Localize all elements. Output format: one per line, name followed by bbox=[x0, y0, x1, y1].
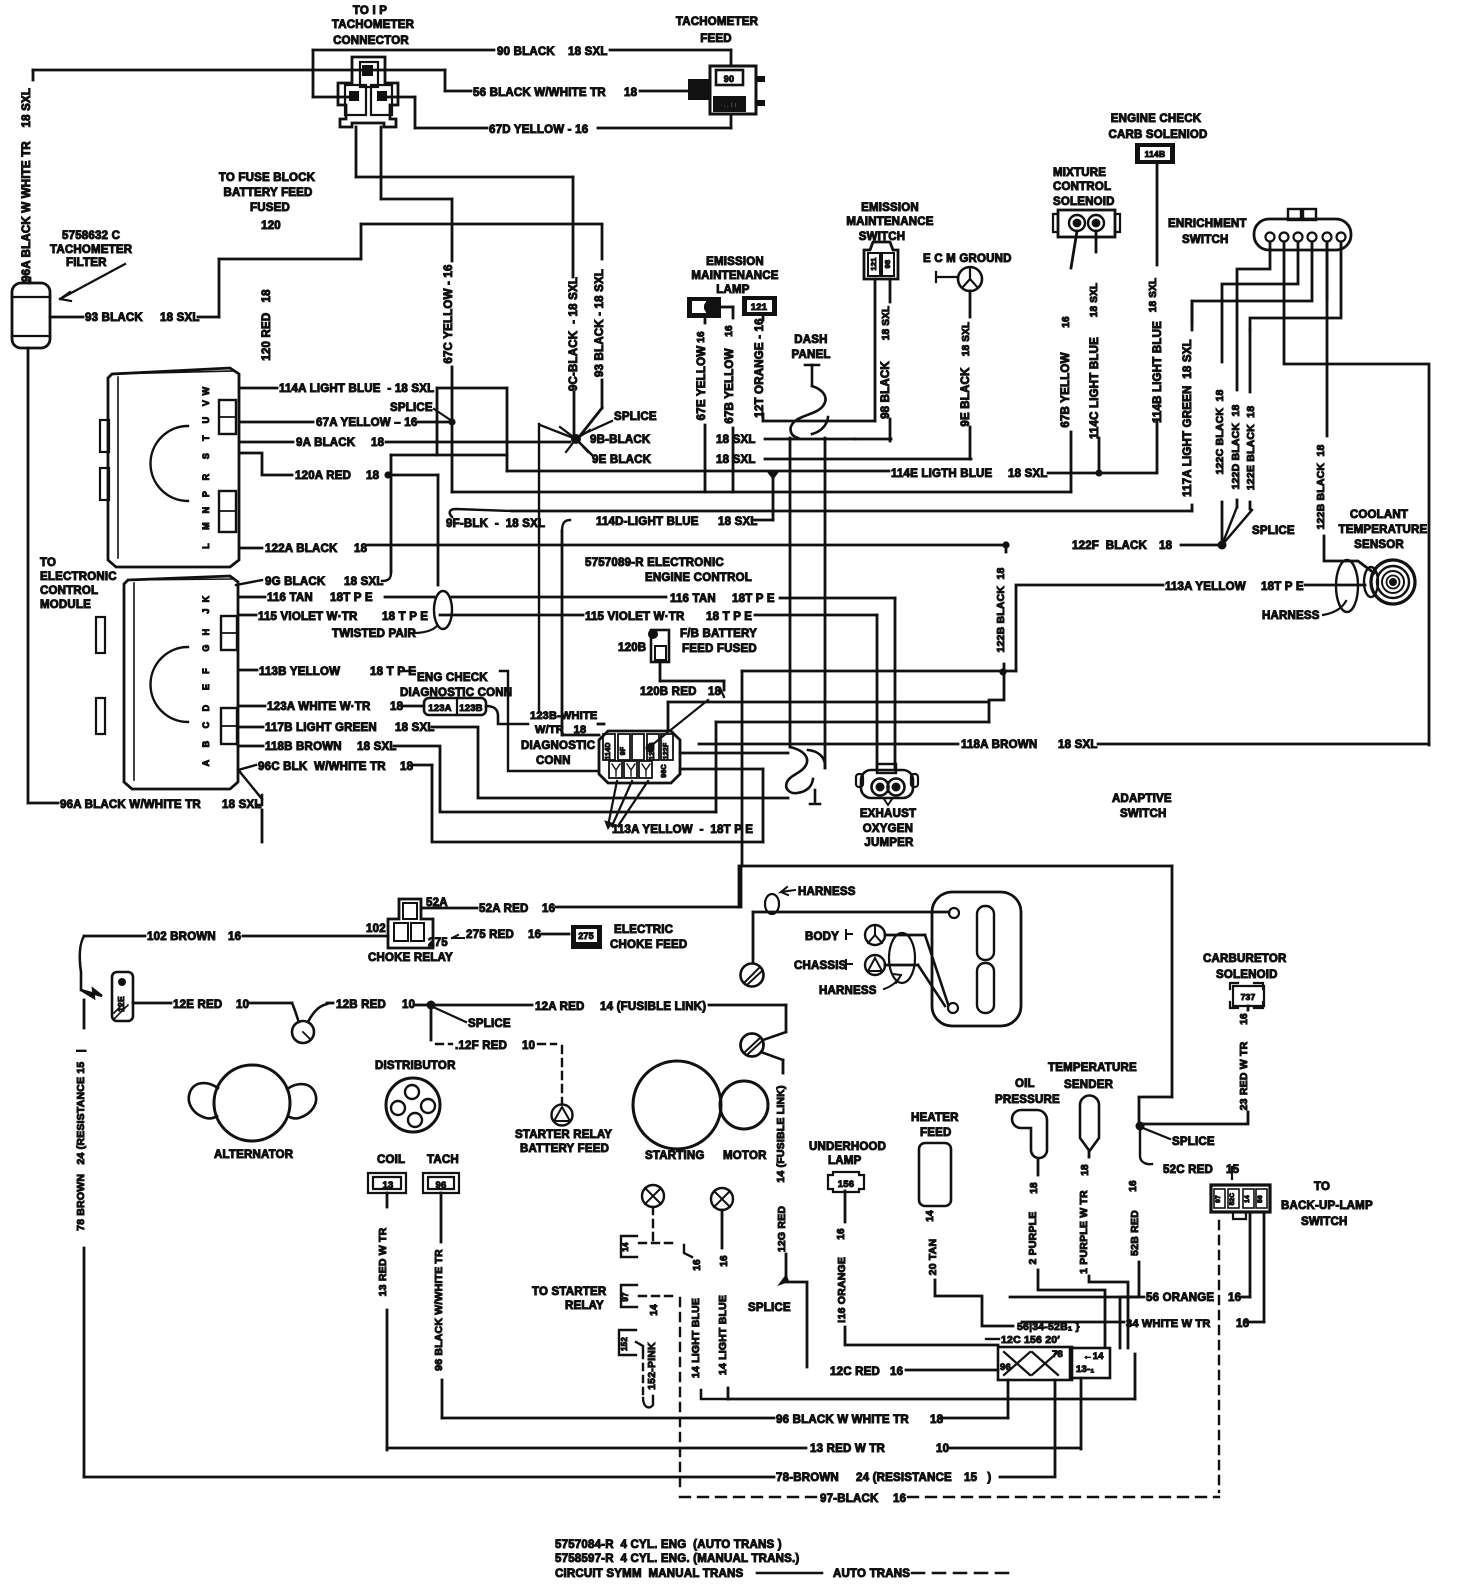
component: distributor post1 bbox=[405, 1085, 419, 1099]
wire: 78 brown bottom run bbox=[84, 1476, 774, 1479]
svg-text:113A YELLOW - 18T P E: 113A YELLOW - 18T P E bbox=[612, 824, 753, 836]
svg-text:TWISTED PAIR: TWISTED PAIR bbox=[332, 628, 416, 640]
terminal: enrichment pin 1 bbox=[1266, 233, 1275, 242]
svg-text:122A BLACK: 122A BLACK bbox=[265, 543, 338, 555]
symbol: ECM ground Y bbox=[962, 268, 978, 288]
leader: splice arrow 114A bbox=[434, 409, 449, 419]
wire: 121 orange lower bbox=[762, 414, 765, 421]
component: fuse body bbox=[651, 630, 669, 662]
svg-text:BATTERY FEED: BATTERY FEED bbox=[223, 187, 312, 199]
svg-text:93 BLACK: 93 BLACK bbox=[85, 312, 143, 324]
svg-text:V: V bbox=[201, 400, 211, 406]
wire: conn right y753 bbox=[680, 752, 788, 755]
wire: 117B from pin C bbox=[240, 726, 263, 729]
symbol: starter stud slot2 bbox=[748, 1041, 762, 1054]
svg-text:96: 96 bbox=[436, 1180, 447, 1191]
connector: ECM1 pin box upper mid bbox=[219, 416, 236, 418]
junction: 67A/67C splice dot bbox=[448, 418, 455, 425]
svg-text:737: 737 bbox=[1241, 992, 1256, 1002]
component: 123A/123B box bbox=[424, 698, 486, 715]
svg-text:MAINTENANCE: MAINTENANCE bbox=[846, 216, 933, 228]
wire: 90 BLACK drop to feed bbox=[730, 50, 733, 66]
svg-text:TACH: TACH bbox=[427, 1154, 459, 1166]
wire: 12F dash2 bbox=[538, 1043, 556, 1045]
wire: 12A diag to screw bbox=[763, 1032, 786, 1040]
wire: 102 curve down bbox=[80, 936, 84, 990]
wire: 12A run bbox=[435, 1004, 532, 1007]
wire: 52C hook bbox=[1140, 1128, 1152, 1164]
component: 12E hatches bbox=[114, 1005, 128, 1019]
wire: 122E drop bbox=[1249, 330, 1252, 392]
svg-text:ENRICHMENT: ENRICHMENT bbox=[1168, 218, 1247, 230]
svg-text:16: 16 bbox=[893, 1493, 906, 1505]
svg-text:122D BLACK 18: 122D BLACK 18 bbox=[1230, 404, 1242, 489]
terminal: exhaust jumper left center bbox=[876, 783, 884, 791]
component: dash panel stem bbox=[811, 365, 814, 386]
symbol: body ground tick bbox=[846, 930, 852, 939]
svg-text:SOLENOID: SOLENOID bbox=[1053, 196, 1115, 208]
wire: 67D run bbox=[415, 127, 487, 130]
svg-text:14: 14 bbox=[649, 1304, 660, 1316]
wire: 67D drop bbox=[414, 97, 417, 128]
svg-text:SPLICE: SPLICE bbox=[748, 1302, 791, 1314]
symbol: trans lamp 2 X bbox=[714, 1191, 730, 1207]
component: starting motor small bbox=[720, 1081, 768, 1129]
svg-text:TEMPERATURE: TEMPERATURE bbox=[1339, 524, 1428, 536]
svg-text:114C LIGHT BLUE: 114C LIGHT BLUE bbox=[1089, 337, 1101, 439]
wire: 114 bus y471 bbox=[507, 470, 889, 473]
symbol: trans lamp 1 bbox=[642, 1185, 664, 1207]
svg-text:9G BLACK: 9G BLACK bbox=[265, 576, 326, 588]
svg-text:18: 18 bbox=[624, 87, 638, 99]
svg-text:16: 16 bbox=[724, 325, 735, 337]
component: oil pressure sender bbox=[1012, 1110, 1047, 1158]
connector: IP tachometer connector body bbox=[338, 57, 398, 127]
wire: 98 black lower bbox=[889, 419, 892, 441]
component: mixture control solenoid body bbox=[1058, 210, 1115, 237]
component: distributor post3 bbox=[421, 1099, 435, 1113]
svg-text:DIAGNOSTIC: DIAGNOSTIC bbox=[521, 740, 595, 752]
svg-text:23 RED W TR: 23 RED W TR bbox=[1238, 1041, 1250, 1110]
svg-text:96A BLACK W/WHITE TR: 96A BLACK W/WHITE TR bbox=[60, 799, 201, 811]
wire: 122B coolant lower bbox=[1324, 536, 1374, 573]
svg-text:98: 98 bbox=[883, 260, 892, 269]
svg-text:117B LIGHT GREEN: 117B LIGHT GREEN bbox=[265, 722, 377, 734]
wire: 122D diag to splice bbox=[1222, 507, 1237, 545]
svg-text:102 BROWN: 102 BROWN bbox=[147, 931, 216, 943]
terminal: enrichment pin 5 bbox=[1323, 233, 1332, 242]
svg-text:TO: TO bbox=[1314, 1181, 1330, 1193]
wire: 118B route bbox=[394, 746, 716, 812]
wire: 122D drop bbox=[1236, 300, 1239, 390]
junction: 122B dot bbox=[1002, 541, 1009, 548]
svg-text:CARB SOLENIOD: CARB SOLENIOD bbox=[1108, 129, 1207, 141]
component: exhaust jumper bottom nub bbox=[884, 799, 892, 805]
leader: splice diag (12A) bbox=[433, 1007, 466, 1022]
pin mark: diag conn lower pin 3 arrow bbox=[642, 764, 650, 776]
wire: 118A left run bbox=[699, 743, 958, 746]
component: coil box bbox=[368, 1173, 406, 1193]
wire: 67 yellow bus y492 bbox=[452, 491, 1071, 494]
svg-text:12G RED: 12G RED bbox=[776, 1206, 788, 1253]
pin: IP tach connector right pin bbox=[377, 91, 387, 101]
component: enrichment switch body bbox=[1254, 219, 1351, 250]
svg-text:E: E bbox=[201, 684, 211, 690]
connector: diag conn slot 4 bbox=[647, 734, 659, 760]
wire: 120 riser left bbox=[355, 127, 358, 177]
wire: ENG CHECK bracket right bbox=[500, 671, 599, 771]
connector: diag conn lower pin 3 bbox=[639, 761, 652, 778]
wire: splice star rays bbox=[560, 427, 590, 452]
wire: 12B run bbox=[327, 1002, 333, 1005]
svg-text:5757089-R ELECTRONIC: 5757089-R ELECTRONIC bbox=[585, 557, 724, 569]
wire: 118A right run bbox=[1098, 743, 1429, 746]
symbol: starter stud slot bbox=[745, 1038, 760, 1052]
terminal: exhaust jumper right bbox=[888, 779, 905, 796]
svg-text:ENGINE CONTROL: ENGINE CONTROL bbox=[645, 572, 752, 584]
wire: body diag bbox=[925, 935, 948, 1004]
svg-text:SPLICE: SPLICE bbox=[390, 402, 433, 414]
connector: ECM2 pin box lower bbox=[221, 708, 237, 744]
connector: ECM2 keyway semicircle bbox=[151, 647, 189, 722]
svg-text:14 LIGHT BLUE: 14 LIGHT BLUE bbox=[690, 1298, 702, 1378]
wire: 116 run2 bbox=[452, 596, 666, 599]
wire: 14 dash hook bbox=[684, 1245, 692, 1257]
component: coolant sensor left cap bbox=[1364, 567, 1378, 597]
wire: engine box right edge bbox=[1171, 866, 1174, 1097]
component: box 152 bbox=[619, 1330, 636, 1355]
wire: 67E lower drop bbox=[704, 425, 707, 492]
wire: 97 dash bbox=[639, 1295, 676, 1297]
symbol: chassis ground triangle bbox=[868, 958, 882, 971]
svg-text:118A BROWN: 118A BROWN bbox=[961, 739, 1037, 751]
wire: 34 white pin drop bbox=[1263, 1212, 1266, 1322]
wire: lamp1 dash drop bbox=[652, 1207, 654, 1243]
svg-text:114B LIGHT BLUE: 114B LIGHT BLUE bbox=[1152, 321, 1164, 423]
junction: 52 splice dot bbox=[1136, 1122, 1145, 1131]
wire: ENG CHECK bracket left bbox=[404, 670, 415, 672]
wire: 56 orange pin drop bbox=[1249, 1212, 1252, 1297]
wire: sender drop bbox=[1088, 1152, 1091, 1157]
wire: 120B bus y702 bbox=[668, 701, 989, 704]
svg-text:LAMP: LAMP bbox=[716, 284, 750, 296]
connector: ECM2 pin box upper mid bbox=[221, 632, 237, 634]
component: choke relay top cell bbox=[403, 903, 417, 919]
svg-text:COIL: COIL bbox=[377, 1154, 405, 1166]
component: exhaust jumper right ear bbox=[911, 774, 918, 787]
wire: 56 orange link bbox=[1241, 1296, 1250, 1299]
wire: engine box right step bbox=[1139, 1097, 1172, 1122]
component: carb solenoid box bbox=[1230, 983, 1264, 1008]
wire: 96C stub bbox=[413, 764, 432, 767]
wire: 114C lower bbox=[1098, 438, 1101, 473]
symbol: trans lamp 2 bbox=[711, 1188, 733, 1210]
svg-text:DASH: DASH bbox=[794, 334, 827, 346]
terminal: exhaust jumper right center bbox=[892, 783, 900, 791]
wire: 14 dash bbox=[639, 1242, 678, 1244]
svg-text:CONTROL: CONTROL bbox=[1053, 181, 1111, 193]
svg-text:14 (FUSIBLE LINK): 14 (FUSIBLE LINK) bbox=[600, 1001, 706, 1013]
wire: 90 BLACK into left pin bbox=[313, 96, 350, 99]
svg-text:FILTER: FILTER bbox=[66, 257, 107, 269]
svg-text:TO I P: TO I P bbox=[353, 5, 387, 17]
svg-text:18 SXL: 18 SXL bbox=[357, 741, 397, 753]
svg-text:18 SXL: 18 SXL bbox=[961, 322, 972, 357]
wire: 98 switch drop bbox=[889, 279, 892, 302]
wire: 12B dip right bbox=[308, 1004, 327, 1022]
svg-text:AUTO TRANS: AUTO TRANS bbox=[833, 1568, 910, 1580]
svg-text:96C: 96C bbox=[661, 764, 668, 777]
component: engine block slot 2 bbox=[977, 963, 994, 1013]
wire: screw1 riser bbox=[752, 912, 755, 963]
wire: 120B stub down bbox=[659, 662, 662, 681]
svg-text:116 TAN: 116 TAN bbox=[670, 593, 716, 605]
svg-text:16: 16 bbox=[1228, 1292, 1241, 1304]
wire: 93 BLACK top run bbox=[361, 223, 602, 226]
leader: harness arrow mid bbox=[884, 974, 901, 989]
svg-text:52C RED: 52C RED bbox=[1163, 1164, 1213, 1176]
svg-text:96 BLACK W WHITE TR: 96 BLACK W WHITE TR bbox=[776, 1414, 909, 1426]
svg-text:CONTROL: CONTROL bbox=[40, 585, 98, 597]
component: coolant sensor ring2 bbox=[1377, 566, 1409, 598]
symbol: ECM ground circle bbox=[958, 267, 982, 291]
component: temperature sender bbox=[1080, 1096, 1099, 1152]
svg-text:12B RED: 12B RED bbox=[336, 999, 386, 1011]
svg-text:CARBURETOR: CARBURETOR bbox=[1203, 953, 1287, 965]
svg-text:FUSED: FUSED bbox=[250, 202, 290, 214]
svg-text:S: S bbox=[201, 453, 211, 459]
wire: 96 tach drop bbox=[440, 1193, 443, 1242]
wire: 96A bottom stub bbox=[28, 802, 58, 805]
svg-text:98 BLACK: 98 BLACK bbox=[880, 361, 892, 419]
symbol: twisted pair oval bbox=[434, 591, 452, 629]
svg-text:16: 16 bbox=[890, 1366, 903, 1378]
wire: 113A left run bbox=[1018, 584, 1163, 587]
svg-text:C: C bbox=[201, 721, 211, 728]
wire: chassis ground link bbox=[885, 964, 918, 967]
junction: diag conn center pin bbox=[646, 744, 655, 753]
svg-text:TO: TO bbox=[40, 557, 56, 569]
junction: 120A dot bbox=[384, 471, 391, 478]
wire: 67 riser right bbox=[380, 127, 383, 199]
wire: 121 orange top stub bbox=[762, 316, 765, 320]
connector: diagnostic conn outline bbox=[599, 731, 680, 783]
wire: 114D right bbox=[752, 519, 773, 522]
svg-text:90: 90 bbox=[724, 74, 734, 84]
component: coolant sensor ring4 bbox=[1387, 576, 1400, 589]
wire: 152 dash drop bbox=[642, 1352, 644, 1398]
svg-text:96 BLACK W/WHITE TR: 96 BLACK W/WHITE TR bbox=[433, 1249, 445, 1371]
connector: backup slot 14 bbox=[1243, 1189, 1254, 1208]
connector: ECM2 pin box lower mid bbox=[221, 725, 237, 727]
wire: 34 white link bbox=[1247, 1321, 1264, 1324]
svg-text:18 T P E: 18 T P E bbox=[382, 611, 428, 623]
wire: 122E diag to splice bbox=[1222, 510, 1252, 545]
wire: 122A long run bbox=[368, 544, 1003, 547]
svg-text:97: 97 bbox=[1215, 1195, 1222, 1203]
svg-text:12T ORANGE - 16: 12T ORANGE - 16 bbox=[754, 318, 766, 418]
svg-text:78: 78 bbox=[1052, 1349, 1063, 1360]
wire: 9B run2 bbox=[855, 438, 891, 441]
wire: 90 BLACK to tachometer feed bbox=[610, 49, 731, 52]
wire: oil drop bbox=[1037, 1159, 1040, 1175]
wire: 93 BLACK rise2 bbox=[360, 224, 363, 259]
svg-text:14 LIGHT BLUE: 14 LIGHT BLUE bbox=[717, 1295, 729, 1375]
pin: IP tach connector left pin bbox=[349, 91, 359, 101]
component: heater feed bbox=[919, 1143, 951, 1206]
svg-text:12A RED: 12A RED bbox=[535, 1001, 585, 1013]
wire: 113A bus y671 bbox=[742, 670, 1016, 673]
svg-text:14: 14 bbox=[1244, 1195, 1251, 1203]
wire: 96A hook drop bbox=[261, 810, 264, 842]
component: tach box bbox=[423, 1173, 459, 1193]
component: enrichment switch tab1 bbox=[1288, 209, 1301, 220]
svg-text:122B BLACK 18: 122B BLACK 18 bbox=[995, 567, 1007, 652]
svg-text:16: 16 bbox=[696, 331, 707, 343]
wire: 114E right run bbox=[1048, 472, 1155, 475]
symbol: starter stud screw bbox=[741, 1034, 764, 1057]
component: box 14 bbox=[621, 1236, 637, 1257]
wire: star to x538 bracket bbox=[540, 425, 576, 439]
wire: 117B route bbox=[432, 727, 788, 798]
wire: 96C from pin A bbox=[238, 765, 256, 770]
wire: 115 run3 bbox=[755, 614, 877, 617]
svg-text:U: U bbox=[201, 417, 211, 424]
svg-text:STARTING: STARTING bbox=[645, 1150, 705, 1162]
terminal: mixture solenoid left inner bbox=[1074, 220, 1081, 227]
wire: 93 BLACK to riser bbox=[219, 258, 361, 261]
component: emission switch slot 98 bbox=[882, 253, 894, 276]
connector: ECM2 left tab2 bbox=[96, 698, 105, 734]
leader: harness arrow (sensor) bbox=[1323, 601, 1346, 615]
component: choke relay outline bbox=[388, 899, 433, 948]
wire: 116 run3 bbox=[780, 597, 895, 600]
wire: 56 BLACK stub bbox=[445, 90, 471, 93]
wire: 67A to splice dot bbox=[416, 421, 449, 424]
svg-text:118B BROWN: 118B BROWN bbox=[265, 741, 342, 753]
wire: 9G riser x391 bbox=[390, 455, 393, 572]
svg-text:MODULE: MODULE bbox=[40, 599, 91, 611]
svg-text:5758597-R 4 CYL. ENG. (MANUAL: 5758597-R 4 CYL. ENG. (MANUAL TRANS.) bbox=[555, 1553, 799, 1565]
symbol: starter relay triangle bbox=[554, 1107, 570, 1121]
wire: 13 red bottom run bbox=[387, 1447, 806, 1450]
symbol: fusible link circle bbox=[292, 1021, 314, 1043]
wire: 9F hook bbox=[450, 509, 512, 517]
wire: 120B run bbox=[660, 680, 724, 683]
component: enrichment switch tab2 bbox=[1303, 209, 1316, 220]
wire: 120B hook bbox=[723, 681, 726, 690]
wire: cluster drop 13 bbox=[1080, 1378, 1083, 1449]
svg-text:18 SXL: 18 SXL bbox=[716, 454, 756, 466]
svg-text:18 SXL: 18 SXL bbox=[1089, 283, 1100, 318]
symbol: butt connector X 2 bbox=[1032, 1352, 1058, 1375]
svg-text:18: 18 bbox=[354, 543, 368, 555]
connector: ECM1 pin box lower mid bbox=[219, 510, 236, 512]
component: exhaust jumper left ear bbox=[856, 774, 863, 787]
svg-text:275 RED: 275 RED bbox=[466, 929, 514, 941]
leader: splice arrow 67A bbox=[581, 421, 612, 435]
wire: 12F drop solid bbox=[430, 1005, 433, 1040]
wire: 156 route bbox=[845, 1327, 998, 1345]
leader: 52 splice diag bbox=[1143, 1128, 1170, 1139]
svg-text:ENGINE CHECK: ENGINE CHECK bbox=[1111, 113, 1202, 125]
connector: IP tach connector top pin cavity bbox=[360, 62, 378, 87]
component: distributor post4 bbox=[408, 1113, 422, 1127]
wire: 12B to junction bbox=[416, 1004, 427, 1007]
svg-text:DISTRIBUTOR: DISTRIBUTOR bbox=[375, 1060, 456, 1072]
wire: 96 long vertical bbox=[441, 1380, 444, 1418]
wire: 67A from pin U bbox=[240, 421, 313, 424]
wire: 120A to x438 bbox=[390, 474, 438, 477]
connector: ECM connector 1 outline bbox=[108, 368, 239, 567]
component: electric choke feed window bbox=[576, 929, 597, 942]
wire: 96C route bbox=[432, 765, 763, 842]
svg-text:CIRCUIT SYMM MANUAL TRANS: CIRCUIT SYMM MANUAL TRANS bbox=[555, 1568, 743, 1580]
component: emission switch slot 121 bbox=[868, 253, 880, 276]
svg-text:TACHOMETER: TACHOMETER bbox=[676, 16, 759, 28]
svg-text:115 VIOLET W·TR: 115 VIOLET W·TR bbox=[258, 611, 358, 623]
svg-text:97-BLACK: 97-BLACK bbox=[820, 1493, 879, 1505]
junction: 122B lower dot bbox=[999, 668, 1006, 675]
svg-text:123A: 123A bbox=[428, 703, 452, 714]
svg-text:18 SXL: 18 SXL bbox=[395, 722, 435, 734]
component: coolant sensor ring3 bbox=[1382, 571, 1404, 593]
terminal: enrichment pin 2 bbox=[1280, 233, 1289, 242]
component: butt connector box 2 bbox=[1070, 1348, 1110, 1378]
wire: 114A run to riser bbox=[437, 387, 507, 390]
svg-text:TACHOMETER: TACHOMETER bbox=[332, 19, 415, 31]
svg-text:52A RED: 52A RED bbox=[479, 903, 529, 915]
svg-text:CHOKE FEED: CHOKE FEED bbox=[610, 939, 687, 951]
wire: 12G lower bbox=[785, 1254, 788, 1276]
svg-text:18 SXL: 18 SXL bbox=[1148, 278, 1159, 313]
svg-text:ENG CHECK: ENG CHECK bbox=[417, 672, 488, 684]
wire: 96A from pin A bbox=[240, 772, 262, 799]
svg-text:18: 18 bbox=[930, 1414, 944, 1426]
component: tach feed cell 90 bbox=[716, 70, 743, 85]
leader: 120B to diag conn bbox=[652, 700, 708, 745]
svg-text:OXYGEN: OXYGEN bbox=[863, 823, 913, 835]
svg-text:ELECTRONIC: ELECTRONIC bbox=[40, 571, 117, 583]
symbol: body ground bbox=[865, 925, 885, 945]
component: starting motor large bbox=[633, 1061, 721, 1149]
wire: 120B hook2 bbox=[720, 688, 724, 697]
connector: backup slot 52C bbox=[1228, 1189, 1239, 1208]
wire: 102 BROWN run bbox=[243, 935, 388, 938]
svg-text:78 BROWN 24 (RESISTANCE 15: 78 BROWN 24 (RESISTANCE 15 | bbox=[75, 1049, 87, 1231]
svg-text:SWITCH: SWITCH bbox=[1182, 234, 1229, 246]
connector: IP tach connector right cavity bbox=[371, 85, 392, 115]
wire: x991 link bbox=[989, 672, 1004, 722]
component: 121 box window bbox=[747, 300, 772, 312]
wire: sender route bbox=[1089, 1276, 1128, 1348]
symbol: ground screw 1 slot2 bbox=[748, 971, 762, 984]
wire: engine box left edge bbox=[740, 866, 743, 907]
wire: 12C run bbox=[906, 1369, 998, 1372]
svg-text:114B: 114B bbox=[1145, 149, 1166, 159]
wire: 52A stub bbox=[421, 907, 477, 910]
symbol: butt connector X 1 bbox=[1004, 1352, 1030, 1375]
svg-text:122B BLACK 18: 122B BLACK 18 bbox=[1315, 444, 1327, 529]
svg-text:12C 156 20′: 12C 156 20′ bbox=[1001, 1334, 1060, 1346]
svg-text:16: 16 bbox=[719, 1255, 730, 1267]
svg-text:F: F bbox=[201, 668, 211, 674]
svg-text:152: 152 bbox=[620, 1337, 629, 1351]
svg-text:P: P bbox=[201, 491, 211, 497]
svg-text:1 PURPLE W TR: 1 PURPLE W TR bbox=[1078, 1190, 1090, 1274]
component: engine block slot 1 bbox=[977, 906, 994, 960]
symbol: fusible link tick bbox=[303, 1032, 310, 1039]
